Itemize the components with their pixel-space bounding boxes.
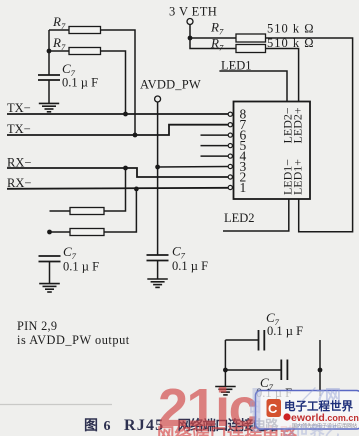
capacitor C7 mid [147,255,169,261]
wire AVDD vertical [157,102,159,255]
wire RXb right lead up to RX2 [104,189,136,232]
wire R7b left lead [49,50,69,52]
pin 4 circle [228,154,232,158]
wire pin6 stub [201,134,229,136]
junction subcircuit left [223,368,228,373]
pin 7 circle [228,123,232,127]
svg-text:C: C [268,401,278,416]
wire cap to ground mid [157,261,159,280]
junction 3V rail [188,36,193,41]
junction RXb-RX2 [134,187,139,192]
svg-text:C7: C7 [63,244,77,261]
svg-text:G世界乙: G世界乙 [283,423,340,436]
capacitor C top of subcircuit [259,330,265,351]
ground top-left [39,103,59,111]
capacitor C middle of subcircuit [281,360,287,381]
wire pin4 stub [201,155,229,157]
pin 6 circle [228,133,232,137]
junction AVDD-pin3 [155,165,160,170]
wire RX2 rail to pin1 [7,188,228,189]
svg-text:AVDD_PW: AVDD_PW [140,78,201,92]
wire RXa right lead up to RX1 [104,168,126,211]
svg-text:／7网: ／7网 [300,387,341,405]
wire LED1 net [219,71,287,102]
wire cap to ground lower-left [49,262,51,285]
wire pin3 from AVDD node [158,166,229,169]
svg-text:C7: C7 [172,244,186,261]
svg-text:R7: R7 [52,35,66,52]
bottom subcircuit left vertical [224,340,226,387]
capacitor C7 top-left [38,75,60,80]
svg-text:TX−: TX− [7,101,31,115]
capacitor C7 lower-left [39,256,61,262]
ground mid [147,279,168,287]
wire left vertical lower-left [50,210,71,212]
resistor R7a top-left [69,27,101,34]
node AVDD_PW terminal [155,96,161,102]
pin 3 circle [228,164,232,168]
svg-text:R7: R7 [210,20,224,37]
pin 8 circle [228,112,232,116]
pin 1 circle [228,185,232,189]
scan artifact faint line [0,404,112,406]
junction left vertical R7b [47,49,52,54]
wire TX2 rail with step to pin7 [7,125,228,135]
svg-text:RX−: RX− [7,156,31,170]
svg-text:0.1 µ F: 0.1 µ F [267,324,303,338]
svg-text:3 V ETH: 3 V ETH [169,5,217,19]
ground lower-left [39,284,60,292]
IC U1 body [234,102,311,200]
svg-text:RX−: RX− [7,176,31,190]
wire R510k-1 right to outer loop down to LED wire [266,38,353,232]
svg-text:510 k Ω: 510 k Ω [267,36,315,50]
wire left vertical top-left [48,30,50,75]
bottom subcircuit top wire [225,339,258,341]
wire RXb left lead [50,231,71,233]
pin 2 circle [228,175,232,179]
watermark eeworld box [256,391,359,430]
wire 3V vertical [190,25,236,49]
svg-text:eworld.com.cn: eworld.com.cn [291,412,359,424]
resistor R 510k lower [236,45,266,53]
node 3V ETH terminal [187,19,193,25]
svg-text:R7: R7 [52,14,66,31]
wire cap to ground top-left [48,80,50,104]
svg-text:LED1: LED1 [221,59,252,73]
wire R7a right lead down to TX2 [101,30,136,135]
wire R510k-2 right down to IC top [266,49,299,102]
junction R7b-TX1 [123,112,128,117]
svg-text:LED2: LED2 [224,211,255,225]
resistor R 510k upper [236,34,266,42]
svg-text:is AVDD_PW output: is AVDD_PW output [17,333,130,347]
wire R7a leads [49,29,69,31]
ground subcircuit [215,387,236,395]
svg-text:LED1+: LED1+ [291,159,305,195]
wire RX1 rail with step to pin2 [7,168,228,177]
resistor RXa lower-left [70,208,104,215]
junction R7a-TX2 [133,133,138,138]
bottom subcircuit right vertical [319,340,321,396]
svg-text:510 k Ω: 510 k Ω [267,22,315,36]
pin 5 circle [228,144,232,148]
junction RXa-RX1 [123,166,128,171]
wire pin5 stub [201,145,229,147]
svg-text:0.1 µ F: 0.1 µ F [62,76,98,90]
junction lower-left [47,230,52,235]
wire R7b right lead down to TX1 [101,51,126,114]
watermark ghost blue shapes [248,387,341,436]
bottom subcircuit middle wire [225,369,281,371]
svg-text:LED2+: LED2+ [291,107,305,143]
svg-text:0.1 µ F: 0.1 µ F [63,260,99,274]
svg-text:PIN 2,9: PIN 2,9 [17,319,57,333]
wire TX1 rail [7,113,228,115]
svg-text:TX−: TX− [7,122,31,136]
wire 3V to R510k-1 [190,37,236,39]
resistor R7b second top-left [69,48,101,55]
svg-text:0.1 µ F: 0.1 µ F [172,259,208,273]
svg-text:日: 日 [248,399,262,415]
svg-text:1: 1 [240,180,247,195]
junction subcircuit right [318,368,323,373]
resistor RXb lower-left [70,229,104,236]
wire LED2 net [223,199,289,231]
